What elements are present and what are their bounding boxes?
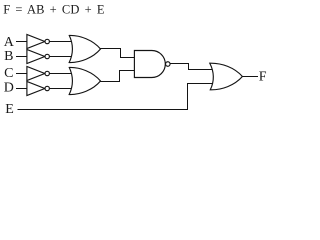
wire inverter C to OR2 (49, 73, 73, 75)
OR gate 2 (C,D) (69, 67, 100, 94)
svg-text:B: B (4, 49, 13, 64)
wire NAND output to OR3 (170, 64, 213, 70)
svg-text:D: D (4, 81, 14, 96)
inverter B bubble (45, 54, 49, 58)
inverter C triangle (27, 67, 45, 81)
wire D input (17, 88, 28, 90)
wire C input (17, 73, 28, 75)
svg-text:C: C (4, 66, 13, 81)
svg-text:F = AB + CD + E: F = AB + CD + E (3, 3, 105, 17)
wire B input (17, 56, 28, 58)
wire inverter B to OR1 (49, 56, 73, 58)
wire A input (17, 41, 28, 43)
svg-text:F: F (259, 70, 267, 85)
wire inverter D to OR2 (49, 88, 73, 90)
wire OR1 to NAND top input (100, 49, 135, 58)
NAND bubble (166, 62, 171, 67)
NAND gate body (134, 51, 165, 78)
wire E input run (18, 84, 214, 110)
inverter A bubble (45, 39, 49, 43)
inverter B triangle (27, 50, 45, 64)
svg-text:E: E (5, 102, 14, 117)
wire OR3 output to F (242, 76, 258, 78)
inverter D bubble (45, 86, 49, 90)
inverter A triangle (27, 35, 45, 49)
OR gate 3 (final) (210, 63, 243, 90)
OR gate 1 (A,B) (69, 35, 100, 62)
svg-text:A: A (4, 35, 15, 50)
inverter D triangle (27, 82, 45, 96)
wire OR2 to NAND bottom input (100, 71, 135, 82)
inverter C bubble (45, 71, 49, 75)
wire inverter A to OR1 (49, 41, 73, 43)
